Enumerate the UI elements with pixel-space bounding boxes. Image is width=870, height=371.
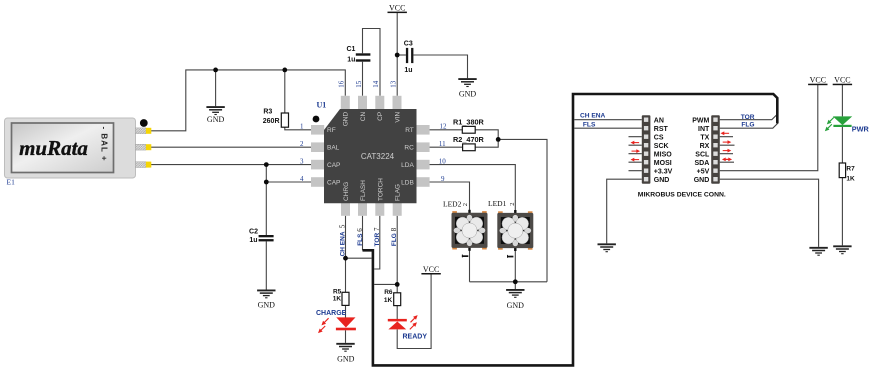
svg-text:RX: RX xyxy=(700,143,710,150)
svg-text:GND: GND xyxy=(507,301,525,310)
svg-text:11: 11 xyxy=(439,140,446,148)
svg-text:FLS 6: FLS 6 xyxy=(356,228,364,246)
svg-text:SDA: SDA xyxy=(695,160,710,167)
svg-text:+3.3V: +3.3V xyxy=(654,168,673,175)
svg-text:R3: R3 xyxy=(263,109,272,116)
svg-text:TORCH: TORCH xyxy=(377,178,384,201)
svg-text:1: 1 xyxy=(300,123,304,131)
svg-text:RC: RC xyxy=(404,145,414,152)
svg-text:1u: 1u xyxy=(249,237,257,244)
svg-text:GND: GND xyxy=(337,354,355,363)
svg-text:CAP: CAP xyxy=(327,179,340,186)
svg-text:R6: R6 xyxy=(384,289,393,296)
svg-text:CHRG: CHRG xyxy=(343,182,350,201)
svg-text:15: 15 xyxy=(355,80,363,88)
svg-text:4: 4 xyxy=(300,175,304,183)
svg-text:AN: AN xyxy=(654,117,664,124)
svg-text:14: 14 xyxy=(372,80,380,88)
svg-text:LED1: LED1 xyxy=(488,199,507,208)
svg-text:CAT3224: CAT3224 xyxy=(361,152,395,161)
svg-text:GND: GND xyxy=(694,177,710,184)
svg-text:BAL: BAL xyxy=(327,145,340,152)
svg-text:C1: C1 xyxy=(346,46,355,53)
svg-text:SCK: SCK xyxy=(654,143,669,150)
svg-text:SCL: SCL xyxy=(695,151,710,158)
svg-text:RT: RT xyxy=(405,127,414,134)
svg-text:R1_380R: R1_380R xyxy=(453,118,485,127)
svg-text:TOR 7: TOR 7 xyxy=(373,227,381,246)
svg-text:2: 2 xyxy=(462,203,469,206)
svg-text:16: 16 xyxy=(338,80,346,88)
svg-text:MIKROBUS DEVICE CONN.: MIKROBUS DEVICE CONN. xyxy=(638,191,726,198)
svg-text:260R: 260R xyxy=(263,118,280,125)
svg-text:TOR: TOR xyxy=(741,114,755,121)
svg-text:R2_470R: R2_470R xyxy=(453,135,485,144)
svg-text:- BAL +: - BAL + xyxy=(99,127,108,162)
svg-text:CH ENA 5: CH ENA 5 xyxy=(339,224,347,256)
svg-text:INT: INT xyxy=(698,126,710,133)
svg-text:C3: C3 xyxy=(404,40,413,47)
svg-text:1u: 1u xyxy=(404,67,412,74)
svg-text:CP: CP xyxy=(377,112,384,121)
svg-text:C2: C2 xyxy=(249,228,258,235)
svg-text:1K: 1K xyxy=(384,297,393,304)
svg-text:U1: U1 xyxy=(317,100,327,109)
svg-text:GND: GND xyxy=(258,300,276,309)
svg-text:1K: 1K xyxy=(846,176,855,183)
svg-text:9: 9 xyxy=(441,175,445,183)
svg-text:LDA: LDA xyxy=(401,162,414,169)
svg-text:PWM: PWM xyxy=(692,117,709,124)
svg-text:MISO: MISO xyxy=(654,151,672,158)
svg-text:FLASH: FLASH xyxy=(360,180,367,201)
svg-text:R7: R7 xyxy=(846,166,855,173)
svg-text:CS: CS xyxy=(654,134,664,141)
svg-text:GND: GND xyxy=(654,177,670,184)
svg-text:LED2: LED2 xyxy=(443,199,462,208)
svg-text:1u: 1u xyxy=(347,57,355,64)
svg-text:+5V: +5V xyxy=(697,168,710,175)
svg-text:10: 10 xyxy=(439,157,447,165)
svg-text:FLG: FLG xyxy=(741,122,754,129)
svg-text:LDB: LDB xyxy=(401,179,414,186)
svg-text:R5: R5 xyxy=(333,288,342,295)
svg-text:GND: GND xyxy=(343,112,350,127)
svg-text:CAP: CAP xyxy=(327,162,340,169)
svg-text:13: 13 xyxy=(389,80,397,88)
svg-text:FLG 8: FLG 8 xyxy=(390,227,398,246)
svg-text:FLAG: FLAG xyxy=(395,184,402,201)
svg-text:GND: GND xyxy=(459,89,477,98)
svg-text:MOSI: MOSI xyxy=(654,160,672,167)
svg-text:12: 12 xyxy=(440,123,448,131)
svg-text:E1: E1 xyxy=(7,178,16,187)
svg-text:FLS: FLS xyxy=(583,122,596,129)
svg-text:2: 2 xyxy=(300,140,304,148)
svg-text:PWR: PWR xyxy=(852,125,870,134)
svg-text:CHARGE: CHARGE xyxy=(316,310,347,317)
svg-text:muRata: muRata xyxy=(19,136,88,160)
svg-text:GND: GND xyxy=(207,115,225,124)
svg-text:3: 3 xyxy=(300,157,304,165)
svg-text:1K: 1K xyxy=(333,295,342,302)
svg-text:2: 2 xyxy=(509,202,516,205)
svg-text:CN: CN xyxy=(360,111,367,121)
svg-text:READY: READY xyxy=(403,333,428,340)
svg-text:CH ENA: CH ENA xyxy=(580,113,606,120)
svg-text:TX: TX xyxy=(700,134,709,141)
svg-text:RST: RST xyxy=(654,126,669,133)
svg-text:VIN: VIN xyxy=(394,112,401,123)
svg-text:RF: RF xyxy=(327,127,336,134)
